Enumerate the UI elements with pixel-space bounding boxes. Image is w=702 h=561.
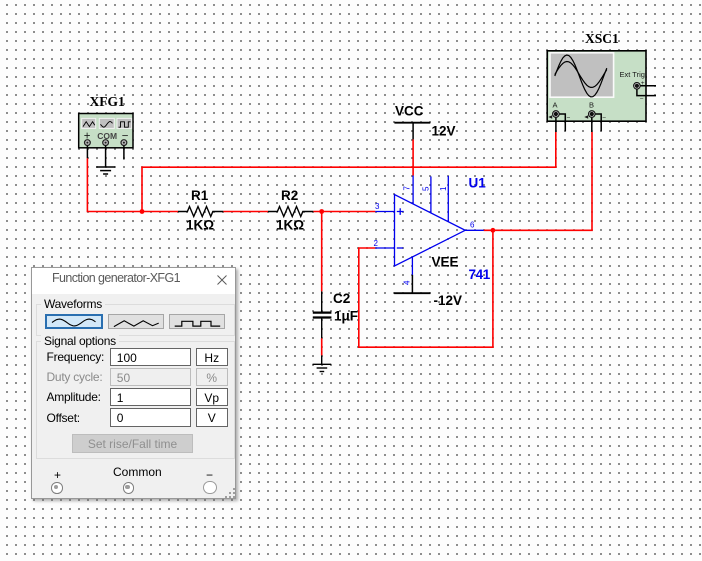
- svg-text:4: 4: [403, 280, 412, 285]
- svg-text:C2: C2: [333, 291, 350, 306]
- svg-text:12V: 12V: [432, 124, 456, 139]
- svg-text:1KΩ: 1KΩ: [276, 218, 304, 233]
- svg-text:R1: R1: [191, 188, 209, 203]
- svg-text:COM: COM: [97, 131, 117, 141]
- svg-text:+: +: [641, 80, 645, 87]
- svg-text:B: B: [589, 101, 594, 110]
- svg-text:3: 3: [375, 202, 380, 211]
- svg-text:XFG1: XFG1: [90, 94, 125, 109]
- svg-text:2: 2: [374, 239, 379, 248]
- svg-text:1KΩ: 1KΩ: [186, 218, 214, 233]
- svg-text:VEE: VEE: [432, 255, 459, 270]
- svg-text:−: −: [602, 114, 606, 121]
- svg-text:7: 7: [403, 186, 412, 191]
- svg-text:U1: U1: [469, 176, 487, 191]
- svg-text:1: 1: [439, 186, 448, 191]
- svg-text:-12V: -12V: [434, 293, 463, 308]
- svg-text:1μF: 1μF: [334, 309, 358, 324]
- svg-text:741: 741: [469, 267, 491, 282]
- svg-text:A: A: [553, 101, 558, 110]
- svg-text:Ext Trig: Ext Trig: [620, 70, 645, 79]
- svg-text:−: −: [640, 95, 644, 102]
- svg-text:−: −: [567, 114, 571, 121]
- svg-text:XSC1: XSC1: [585, 31, 619, 46]
- svg-text:R2: R2: [281, 188, 298, 203]
- svg-text:VCC: VCC: [395, 104, 424, 119]
- svg-text:6: 6: [470, 221, 475, 230]
- svg-text:5: 5: [422, 186, 431, 191]
